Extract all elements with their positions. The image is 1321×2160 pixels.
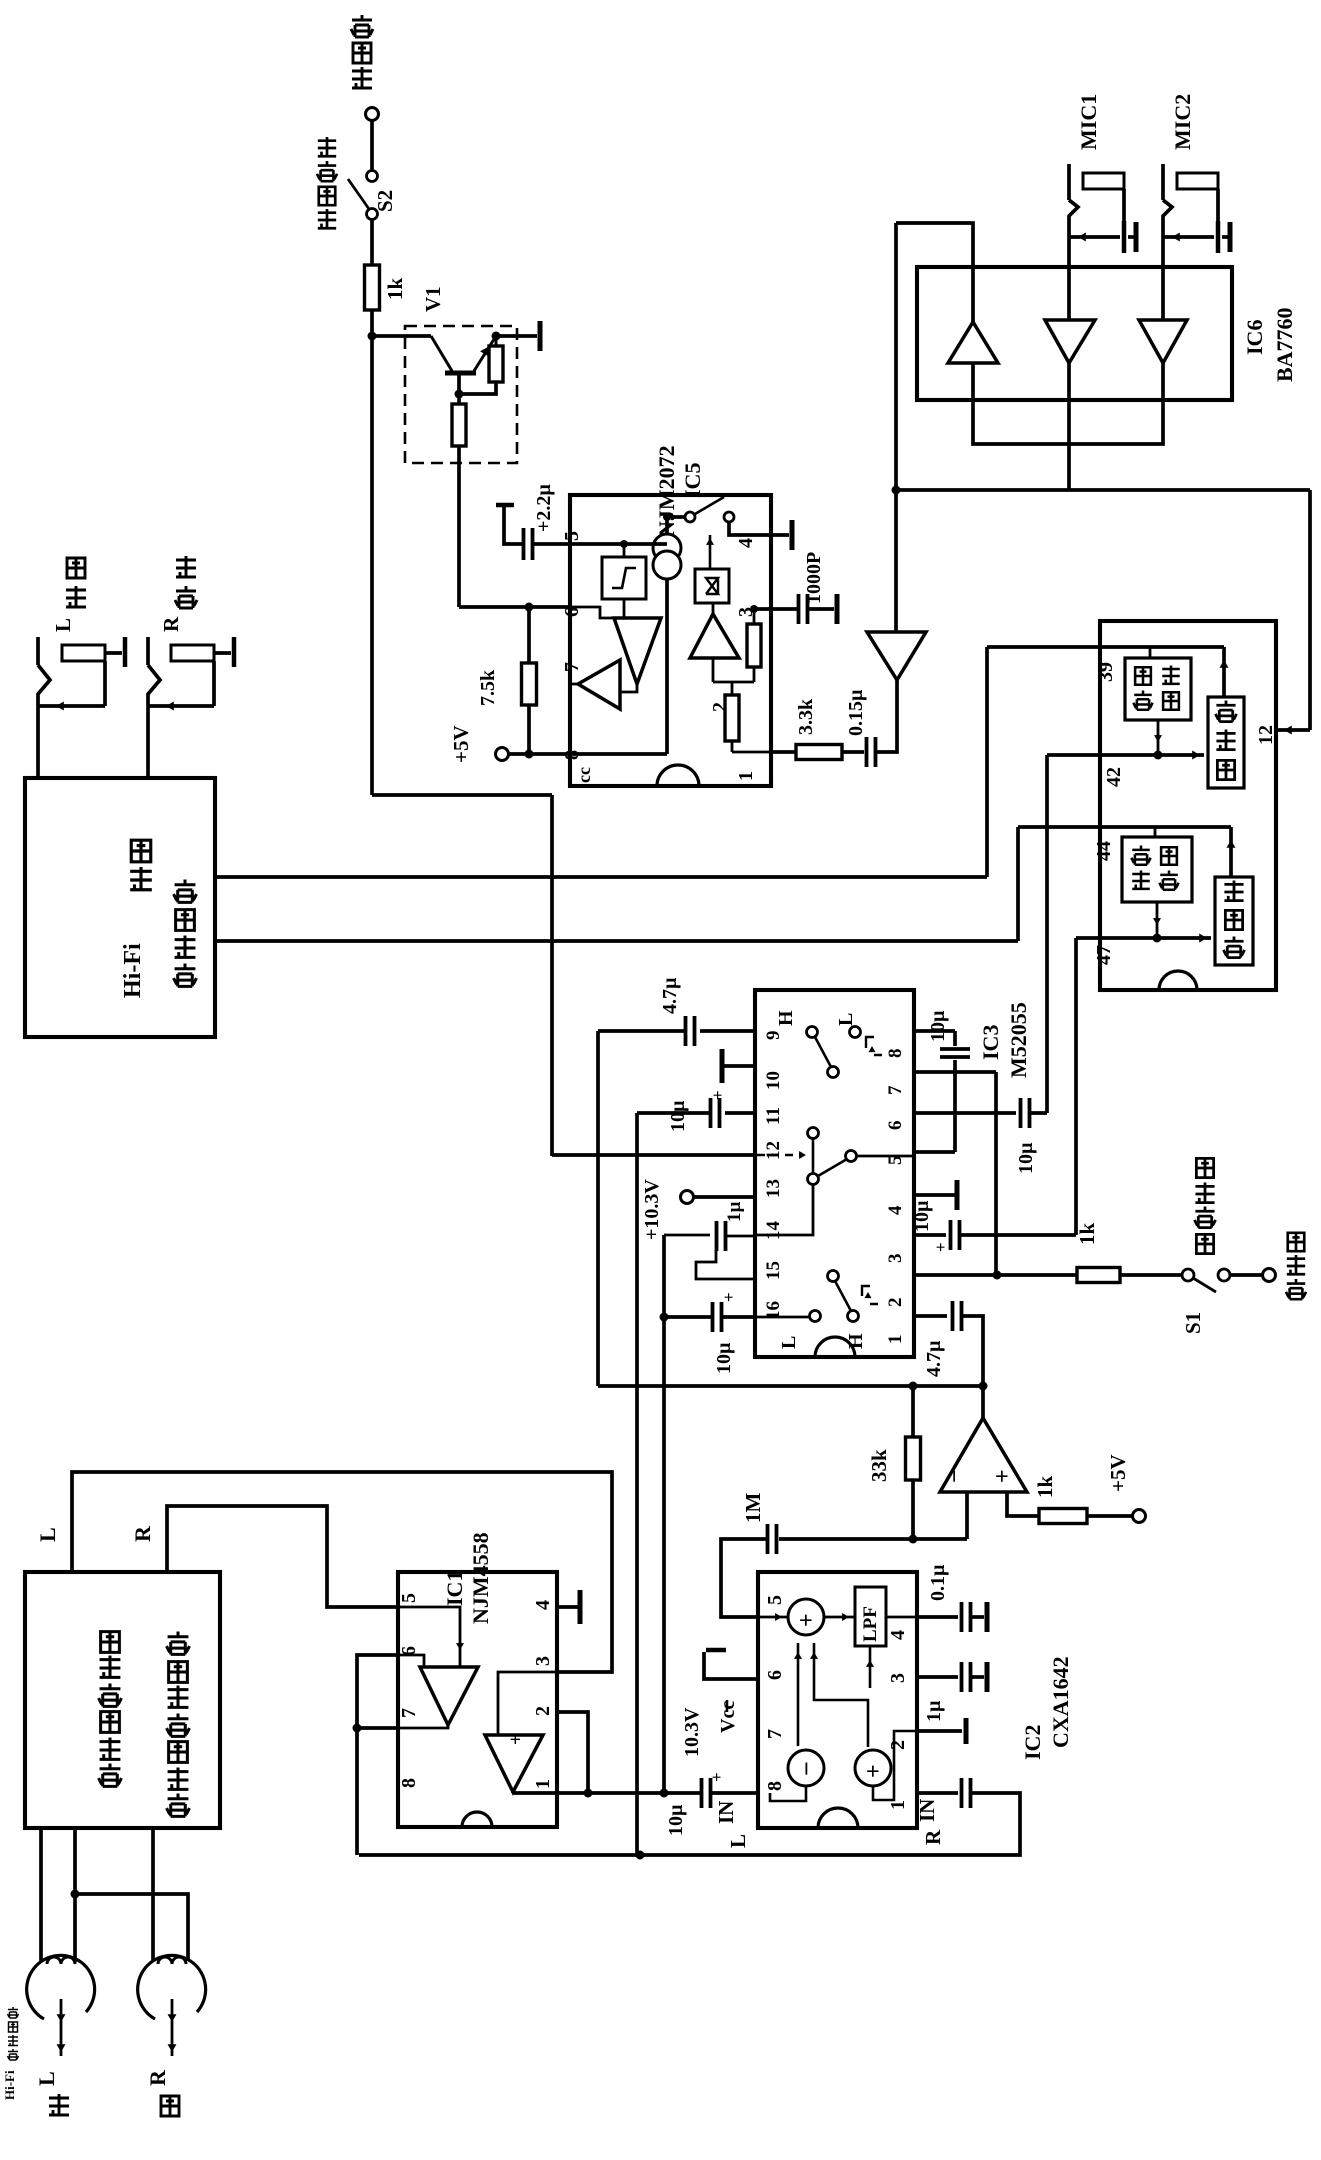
triangle IC6-2 (down) [1045,320,1095,363]
svg-text:5: 5 [764,1595,786,1605]
IC2 bottom notch [818,1808,858,1828]
jack sleeve bar MIC2 [1216,221,1221,253]
svg-text:1: 1 [885,1335,906,1345]
wire x1076 down to IC3 pin3 [1074,938,1078,1235]
wire pin6 internal (IC1) [398,1655,424,1667]
node [492,332,501,341]
svg-text:4.7µ: 4.7µ [923,1340,945,1377]
wire x637 down to bottom bus [635,1113,639,1855]
amplifier IC6 box [917,267,1232,400]
wire V1 down [457,446,461,607]
svg-text:7: 7 [885,1085,906,1095]
svg-text:L: L [51,618,75,632]
svg-text:+: + [707,1772,726,1782]
wire noninverting input [1007,1492,1039,1516]
head R (right magnetic head) [138,1955,206,2019]
ground (pin4) [790,520,795,550]
resistor 3.3k [771,750,796,754]
svg-text:14: 14 [763,1221,784,1241]
svg-text:L: L [778,1336,800,1349]
wire [665,517,669,534]
circle minus (IC2) [788,1750,824,1786]
triangle IC1-B [485,1735,543,1792]
svg-text:4.7µ: 4.7µ [659,977,681,1014]
label 歌声抑制 [1196,1234,1213,1253]
label 及音频处理电路 [167,1793,190,1816]
wire pin5 internal (IC1) [398,1607,460,1667]
IC5 bottom notch [657,765,699,786]
wire base to divider [457,375,461,404]
wire right-ch top [987,645,1224,649]
svg-text:10µ: 10µ [927,1010,949,1042]
node pin2/LIN [584,1789,593,1798]
selector mark pin2 [862,1286,878,1304]
wire [1087,1514,1132,1518]
switch S1 [1182,1269,1194,1281]
svg-text:10µ: 10µ [911,1200,933,1232]
svg-text:47: 47 [1093,945,1115,965]
svg-text:IC6: IC6 [1242,320,1267,355]
wire pin1 internal [732,751,771,754]
svg-text:2: 2 [887,1740,909,1750]
svg-text:MIC2: MIC2 [1170,94,1195,150]
svg-text:BA7760: BA7760 [1272,307,1297,382]
wire pin2 internal [873,1731,917,1800]
wire pin7 stub [570,683,578,686]
svg-text:10µ: 10µ [1015,1142,1037,1174]
wire internal feedback left [797,1643,800,1746]
resistor 1k (top) [365,265,380,310]
svg-text:IN: IN [915,1799,939,1822]
svg-text:1: 1 [532,1779,554,1789]
ground (IC1 pin4) [557,1605,578,1609]
wire pin8 internal stub [770,1786,806,1801]
wire pin7 down [914,1070,996,1074]
svg-text:+: + [794,1613,820,1627]
resistor (pin3 internal) [753,609,756,624]
IC1 bottom notch [462,1812,492,1827]
svg-text:NJM4558: NJM4558 [468,1532,493,1624]
wire Hi-Fi out R [215,875,987,879]
wire pin2 feedback [557,1712,588,1793]
svg-text:3: 3 [885,1254,906,1264]
wire pin5 internal [758,1616,788,1619]
node [660,1313,669,1322]
svg-text:+: + [719,1292,738,1302]
terminal +10.3V [681,1191,694,1204]
jack sleeve bar MIC1 [1122,221,1127,253]
wire jack L to box [36,706,40,778]
svg-text:MIC1: MIC1 [1076,94,1101,150]
wire bass2 bottom stub [1156,902,1159,938]
svg-text:3: 3 [532,1656,554,1666]
svg-text:Hi-Fi: Hi-Fi [120,943,146,998]
node 1M/33k [909,1535,918,1544]
svg-text:8: 8 [764,1781,786,1791]
wire R IN [640,1793,1020,1855]
wire vertical x552 [550,795,554,1156]
svg-text:−: − [942,1469,968,1483]
ground (pin10) [722,1064,755,1068]
svg-text:L: L [726,1834,750,1848]
block Hi-Fi audio output box [25,778,215,1037]
resistor (V1 lower) [452,404,466,446]
node 33k [909,1382,918,1391]
op-amp IC1 box [398,1572,557,1827]
stub amp-R top with arrow [1222,647,1226,697]
transistor V1 emitter with arrow [474,336,496,371]
label 歌声变换 [318,209,336,228]
arrow up to switch [709,535,712,569]
wire pin16 internal [755,1316,810,1319]
current source circles [653,534,681,562]
box 低音提升 (bass boost) 39 [1125,658,1191,720]
capacitor 1µ (IC2 pin3) [917,1675,958,1679]
svg-text:3.3k: 3.3k [795,698,817,735]
node 7.5k top [525,603,534,612]
op-amp IC5 box [570,495,771,786]
svg-text:+: + [931,1242,950,1252]
circle plus (IC2) [855,1750,891,1786]
triangle IC6-3 (down) [1139,320,1187,363]
wire LPF down [869,1646,872,1688]
ground (pin4) [914,1193,955,1197]
svg-text:44: 44 [1093,841,1115,861]
capacitor (R IN) [917,1791,958,1795]
wire V1 control to pin12 [552,1153,755,1157]
wire IC1 out [511,1792,515,1793]
processor IC2 box [758,1572,917,1828]
switch mid contacts [808,1128,819,1139]
selector mark pin8 [866,1037,882,1055]
resistor 7.5k [527,607,531,663]
svg-text:4: 4 [532,1600,554,1610]
svg-text:9: 9 [763,1031,784,1041]
wire Hi-Fi out L [215,939,1018,943]
headphone jack L [36,637,40,665]
wire triangle top [894,490,898,632]
jack bar L [123,637,128,667]
op-amp (noise gate) [981,1386,985,1418]
switch IC IC3 box [755,990,914,1357]
triangle C (up) [690,614,739,658]
svg-text:S2: S2 [373,190,397,212]
svg-text:+5V: +5V [449,725,473,763]
node (IC1 fb) [353,1724,362,1733]
svg-text:+: + [708,1090,727,1100]
triangle (IC5 output buffer) [867,632,926,680]
wire pin3 internal [754,607,771,611]
svg-text:15: 15 [763,1261,784,1280]
wire [496,334,537,338]
svg-text:42: 42 [1103,767,1125,787]
wire cc inside [570,752,667,756]
label 磁头放大电路 [99,1763,122,1786]
svg-text:R: R [145,2069,170,2086]
head L (left magnetic head) [27,1955,95,2019]
svg-text:4: 4 [735,538,757,548]
svg-text:8: 8 [885,1049,906,1059]
wire head L1 [39,1828,43,1962]
svg-text:L: L [34,2071,59,2086]
wire head R1 [151,1828,155,1961]
svg-text:+10.3V: +10.3V [641,1179,663,1240]
wire mid switch riser [812,1138,815,1174]
capacitor 10µ (pin16) [713,1302,722,1332]
svg-text:CXA1642: CXA1642 [1048,1656,1073,1748]
wire bus y1386 [598,1384,983,1388]
wire [842,750,864,754]
resistor 1k (opamp) [1039,1509,1087,1524]
wire bass1 bottom stub [1157,720,1160,755]
triangle IC6-1 (up) [948,322,998,363]
svg-text:7: 7 [398,1708,420,1718]
wire [459,382,496,394]
svg-text:1: 1 [887,1800,909,1810]
resistor (V1 right) [495,336,498,346]
wire pin7 external [357,1726,398,1730]
node opamp [979,1382,988,1391]
wire pin2 to S1 [914,1273,1077,1277]
svg-text:1k: 1k [383,278,407,301]
svg-text:10µ: 10µ [667,1100,689,1132]
box 左放大 (left amp) [1215,877,1253,965]
wire head L2 [73,1828,77,1894]
svg-text:1k: 1k [1033,1476,1057,1499]
wire pin14 internal [755,1184,813,1235]
headphone jack R [146,637,150,665]
svg-text:V1: V1 [421,286,445,312]
capacitor 1000P (pin3) to ground [771,607,797,611]
wire A out [398,1725,448,1728]
terminal 高电平 [366,108,379,121]
svg-text:4: 4 [885,1205,906,1215]
svg-text:4: 4 [887,1630,909,1640]
wire pin3 internal (IC1) [498,1672,557,1735]
box 右放大 (right amp) [1208,697,1244,788]
svg-text:8: 8 [398,1778,420,1788]
svg-text:R: R [159,616,183,632]
triangle A (down) [623,599,626,618]
capacitor 1µ (pin14/15) [717,1221,726,1251]
block head amp box [25,1572,220,1828]
capacitor 10µ (pin3) [914,1233,946,1237]
node head [71,1890,80,1899]
head R arrow [171,1999,174,2056]
wire pin4 [729,523,789,535]
svg-text:S1: S1 [1181,1312,1205,1334]
wire LPF out [886,1616,917,1619]
wire x598 down to bus [596,1031,600,1386]
svg-text:7: 7 [764,1729,786,1739]
triangle B (left) [578,660,620,709]
svg-text:Hi-Fi: Hi-Fi [2,2070,17,2100]
node on y490 wire [892,486,901,495]
svg-text:H: H [775,1010,797,1026]
switch S2 [367,171,378,182]
wire internal feedback right [814,1643,868,1747]
wire MIC1 to IC6 [1067,237,1071,320]
svg-text:10µ: 10µ [713,1342,735,1374]
jack bar R [232,637,237,667]
svg-text:IC3: IC3 [978,1025,1003,1060]
capacitor 10µ (pin6) [914,1111,1016,1115]
svg-text:5: 5 [561,531,583,541]
dashed control wire pin12 [757,1154,800,1157]
wire head cross [75,1894,188,1961]
ground MIC2 [1222,235,1229,239]
svg-text:6: 6 [885,1121,906,1131]
wire IC6 bottom bus [973,363,1163,444]
wire IC6-2 to y490 [1067,363,1071,490]
capacitor 10µ (pin11) [725,1111,755,1115]
svg-text:6: 6 [764,1670,786,1680]
wire [370,220,374,265]
wire sum to LPF [824,1616,855,1619]
wire R input to pin5 [167,1506,398,1607]
capacitor 10µ (L IN) [711,1791,758,1795]
diode box (IC5) [695,569,729,603]
wire up x1018 [1016,827,1020,941]
wire pin6 internal [570,607,614,618]
svg-text:1k: 1k [1075,1223,1099,1246]
schmitt box [602,557,646,599]
triangle IC1-A [420,1667,478,1725]
svg-text:+: + [505,1734,527,1745]
wire pin13 [693,1195,755,1199]
svg-text:LPF: LPF [860,1606,881,1642]
wire up x987 [985,647,989,877]
wire inverting input [965,1492,969,1539]
svg-text:2: 2 [885,1298,906,1308]
transistor V1 dashed box [405,326,517,463]
capacitor 10µ (pin8-pin5 right) [914,1029,955,1033]
microphone MIC1 jack [1067,164,1071,200]
stub amp-L top with arrow [1229,827,1233,877]
node L IN [660,1789,669,1798]
svg-text:2: 2 [532,1706,554,1716]
svg-text:12: 12 [763,1141,784,1160]
svg-text:L: L [835,1013,857,1026]
node bottom bus [636,1851,645,1860]
wire [370,120,374,170]
svg-text:33k: 33k [867,1449,891,1482]
Vcc riser [704,1652,758,1679]
svg-text:cc: cc [574,767,594,783]
wire pin5 internal [570,542,667,546]
wire left-ch top [1018,825,1231,829]
wire to S1 [1120,1273,1182,1277]
node [455,390,464,399]
wire to triangle [876,680,897,752]
wire pin12 arrow [1276,728,1310,732]
svg-text:R: R [921,1829,945,1845]
svg-text:IC1: IC1 [442,1571,467,1606]
svg-text:IC5: IC5 [680,463,705,498]
resistor 1k (S1) [1077,1268,1120,1283]
svg-text:10.3V: 10.3V [681,1707,703,1757]
wire pin6-7 feedback [357,1655,398,1728]
svg-text:5: 5 [398,1593,420,1603]
wire into amp-L [1076,936,1211,940]
wire mid switch to pin5 [856,1155,914,1158]
svg-text:0.15µ: 0.15µ [845,689,867,736]
svg-text:R: R [130,1525,155,1542]
svg-text:11: 11 [763,1107,784,1125]
ground MIC1 [1128,235,1135,239]
svg-text:1µ: 1µ [923,1700,945,1722]
svg-text:IC2: IC2 [1020,1725,1045,1760]
wire A-B link [620,684,637,692]
svg-text:0.1µ: 0.1µ [927,1564,949,1601]
terminal +5V (opamp) [1133,1510,1146,1523]
wire [370,310,374,336]
IC4 bottom notch [1159,971,1197,990]
wire into amp-R [1047,753,1204,757]
svg-text:+: + [990,1469,1016,1483]
microphone MIC2 jack [1161,164,1165,200]
wire internal bus [713,681,754,684]
switch (IC5 top) [667,515,685,519]
svg-text:12: 12 [1255,725,1277,745]
svg-text:1M: 1M [741,1493,765,1524]
node [525,750,534,759]
wire y1539 [779,1537,967,1541]
box 低音提升 (bass boost) 44 [1122,837,1192,902]
svg-text:+2.2µ: +2.2µ [533,484,555,532]
wire L IN from IC1 [513,1791,701,1795]
svg-text:39: 39 [1095,662,1117,682]
svg-text:10: 10 [763,1071,784,1090]
wire x1047 down to IC3 pin6 [1045,755,1049,1113]
wire x664 down to L IN [662,1317,666,1793]
label 高水平 [1286,1279,1306,1299]
ground (V1) [538,321,543,351]
svg-text:1µ: 1µ [724,1202,745,1223]
wire L input to pin3 [72,1472,612,1672]
node [1154,751,1163,760]
node [1153,934,1162,943]
wire head L2b [73,1894,77,1962]
svg-text:10µ: 10µ [665,1804,687,1836]
resistor (pin2 internal) [731,682,734,695]
wire pin6 stub [459,605,570,609]
capacitor 2.2µ (pin5) [532,542,570,546]
svg-text:M52055: M52055 [1006,1002,1031,1078]
capacitor 4.7µ (pin1) [914,1314,947,1318]
head L arrow [60,1999,63,2056]
wire y490 to pin12 [896,488,1310,492]
wire corner to IC3 [372,793,552,797]
svg-text:+: + [861,1764,887,1778]
transistor V1 base [431,336,452,371]
node (pin7 junction) [993,1271,1002,1280]
amplifier block IC4 box [1100,621,1276,990]
node junction [368,332,377,341]
wire 1M to pin5 [721,1539,767,1617]
label 高电平 (high level) [352,67,372,88]
wire to V1 [372,334,431,338]
summing circle (pin5) [788,1599,824,1635]
wire x664 upper [664,1234,710,1237]
svg-text:13: 13 [763,1179,784,1198]
svg-text:7: 7 [561,662,583,672]
svg-text:+5V: +5V [1106,1454,1130,1492]
switch bottom blade [828,1271,839,1282]
wire jack R to box [146,706,150,778]
wire IC6-1 output up [896,223,973,322]
resistor 33k [911,1386,915,1437]
